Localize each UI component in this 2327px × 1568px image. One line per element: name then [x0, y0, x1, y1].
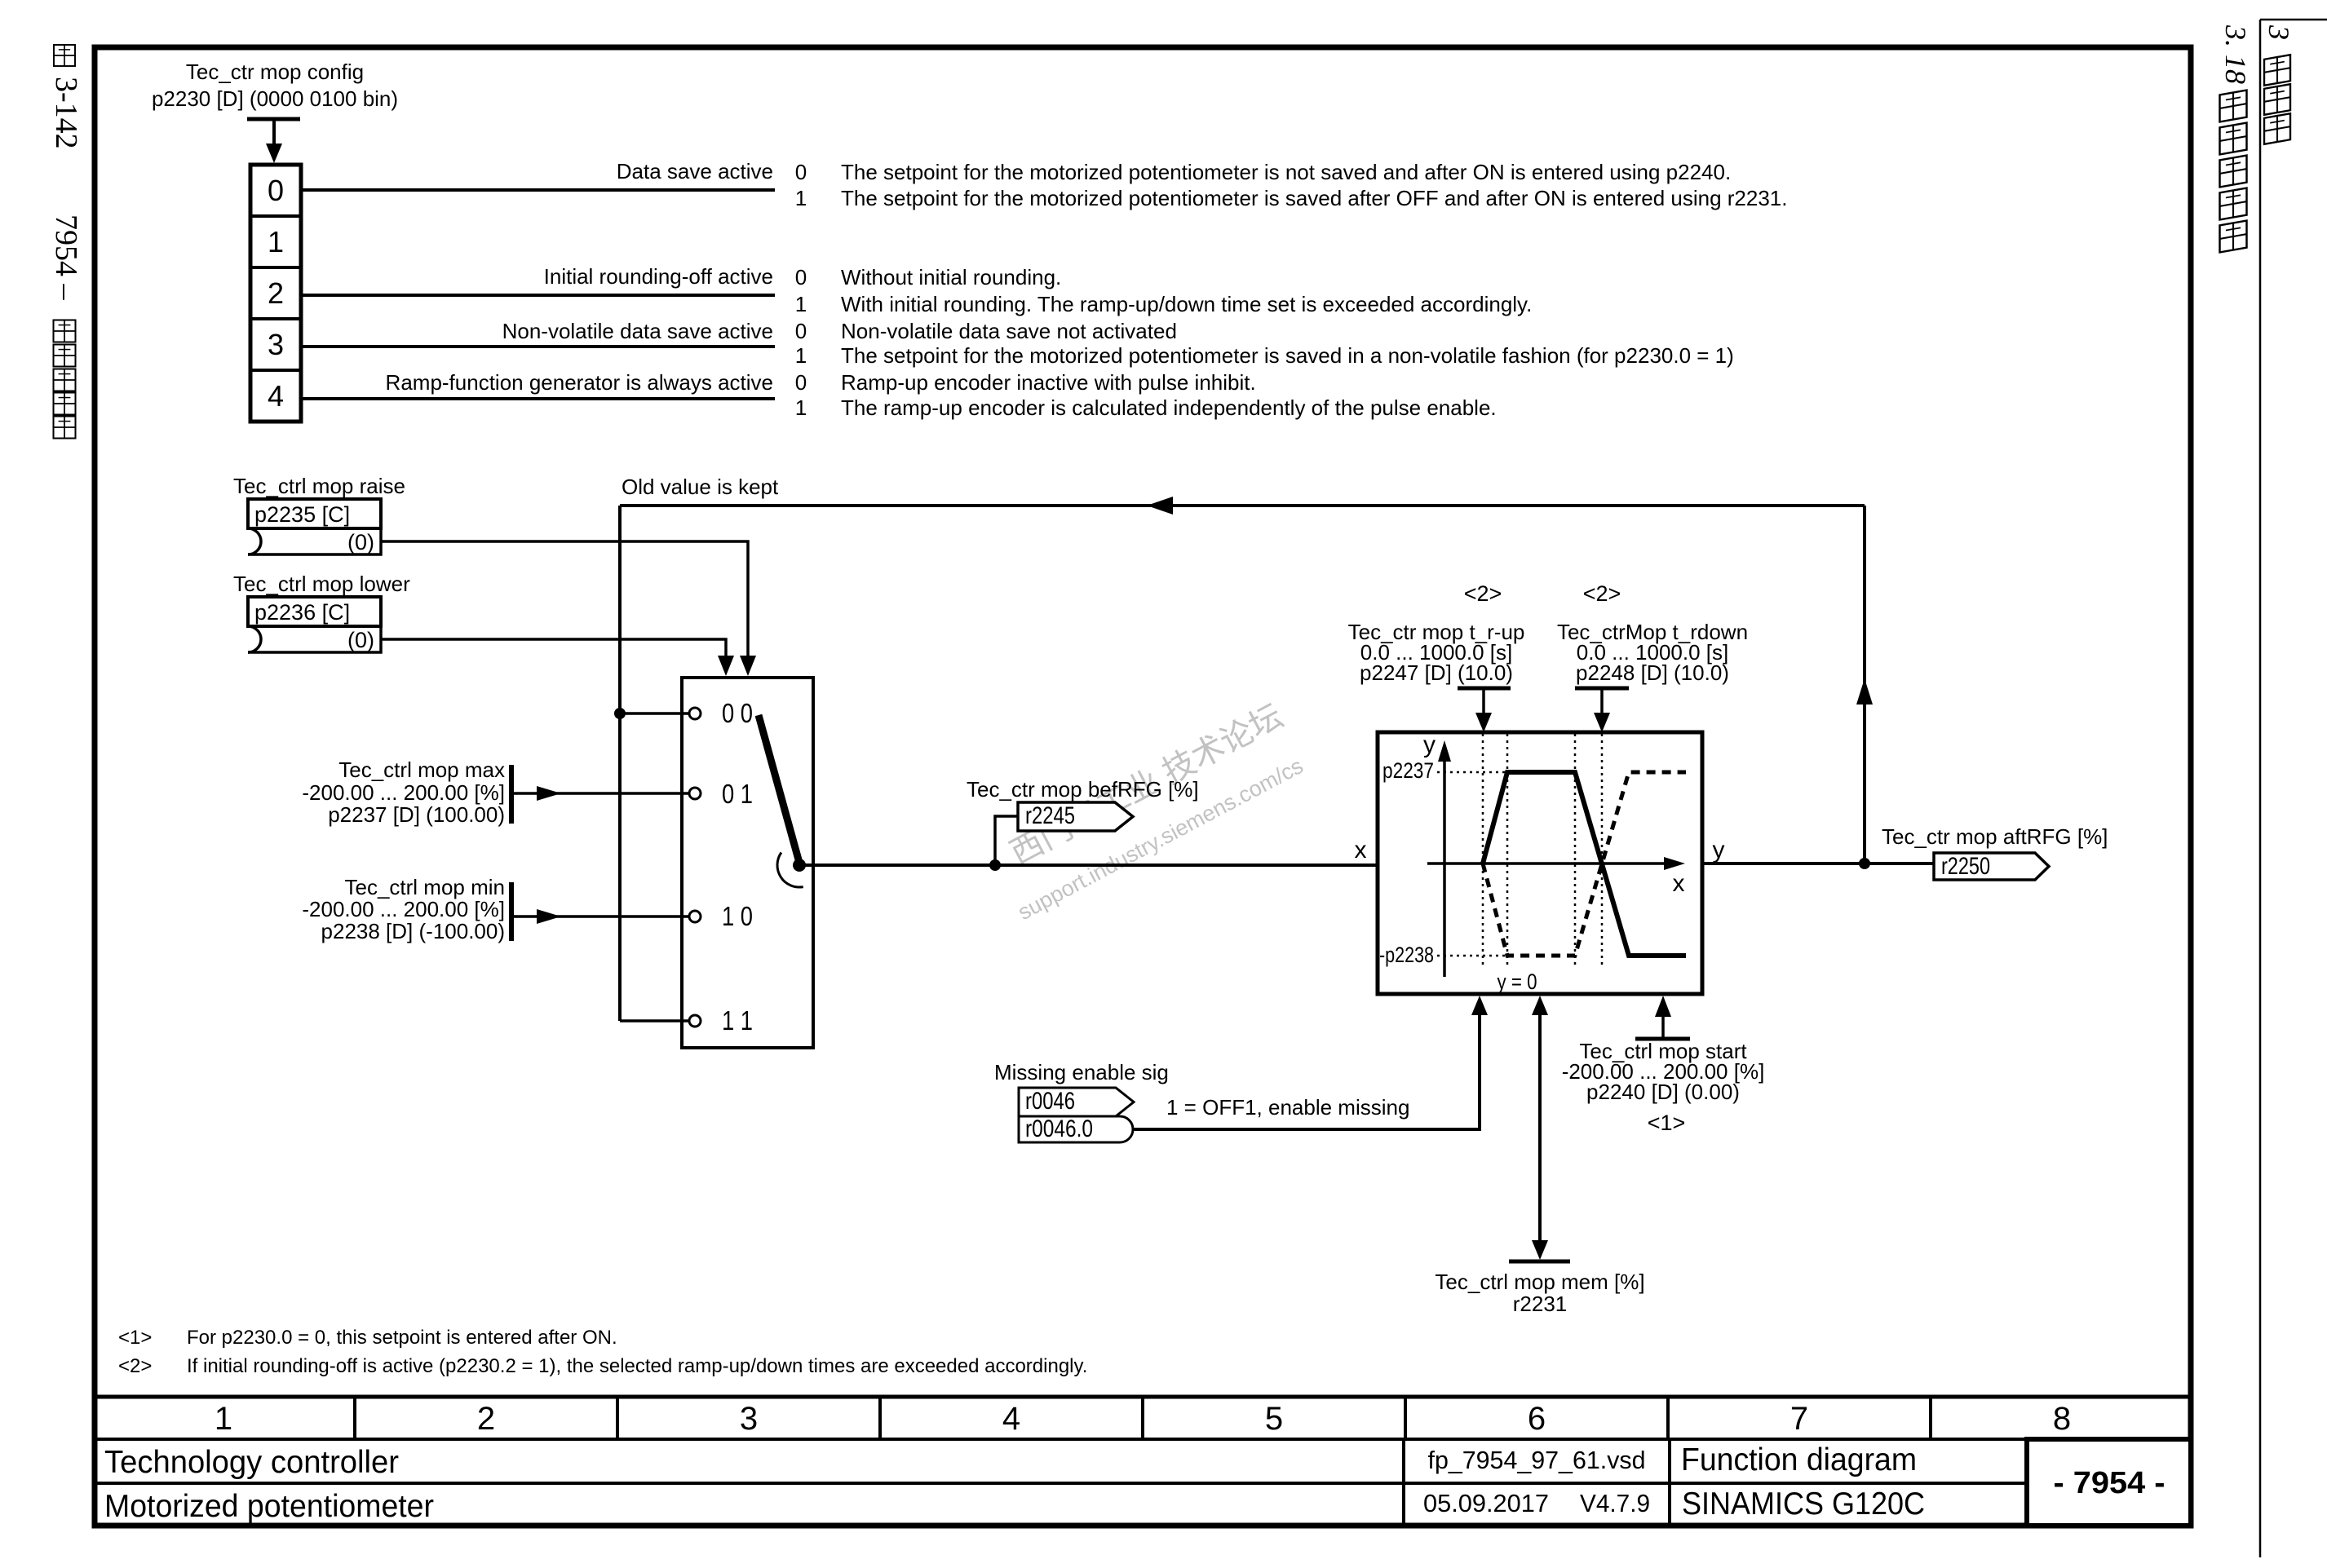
switch rotation arc	[777, 853, 803, 888]
wire p2238 to contact 10	[511, 915, 688, 918]
svg-text:p2238 [D] (-100.00): p2238 [D] (-100.00)	[321, 919, 505, 943]
wire p2247 into RFG	[1482, 688, 1485, 714]
svg-text:r2245: r2245	[1025, 802, 1075, 829]
svg-text:p2237 [D] (100.00): p2237 [D] (100.00)	[328, 802, 505, 827]
svg-text:Ramp-up encoder inactive with: Ramp-up encoder inactive with pulse inhi…	[841, 370, 1256, 395]
svg-text:1 1: 1 1	[722, 1005, 753, 1036]
svg-text:3. 18: 3. 18	[2219, 24, 2252, 84]
svg-text:r2231: r2231	[1513, 1292, 1568, 1316]
svg-text:Tec_ctrl mop mem [%]: Tec_ctrl mop mem [%]	[1435, 1270, 1644, 1294]
p2230 parameter T-bar	[247, 117, 300, 121]
svg-text:Tec_ctrl mop min: Tec_ctrl mop min	[345, 875, 506, 899]
wire p2236 to switch	[381, 639, 726, 657]
svg-text:3: 3	[740, 1401, 758, 1437]
wire switch select vertical	[618, 506, 622, 1021]
svg-text:Data save active: Data save active	[617, 159, 773, 183]
svg-text:3-142: 3-142	[49, 77, 83, 149]
svg-text:0: 0	[795, 319, 807, 343]
wire bit 4	[301, 397, 775, 400]
contact 01	[689, 788, 701, 799]
svg-text:If initial rounding-off is act: If initial rounding-off is active (p2230…	[187, 1355, 1087, 1377]
page number box 7954	[2027, 1439, 2191, 1526]
svg-text:<1>: <1>	[118, 1327, 152, 1349]
wire r0046.0 to RFG	[1133, 1014, 1480, 1129]
svg-text:For p2230.0 = 0, this setpoint: For p2230.0 = 0, this setpoint is entere…	[187, 1327, 617, 1349]
wire bit 3	[301, 345, 775, 348]
svg-text:y: y	[1713, 837, 1725, 864]
RFG ramp curve dashed	[1483, 772, 1686, 956]
svg-text:p2248 [D] (10.0): p2248 [D] (10.0)	[1576, 660, 1729, 685]
wire feedback right vertical	[1863, 506, 1866, 864]
wire to contact 00	[620, 712, 688, 715]
svg-text:Tec_ctrl mop raise: Tec_ctrl mop raise	[233, 474, 405, 498]
svg-text:0 1: 0 1	[722, 779, 753, 809]
svg-text:The setpoint for the motorized: The setpoint for the motorized potentiom…	[841, 160, 1731, 184]
svg-text:6: 6	[1528, 1401, 1546, 1437]
svg-text:- 7954 -: - 7954 -	[2054, 1466, 2166, 1500]
wire RFG output to r2250	[1702, 862, 1934, 865]
svg-text:1 0: 1 0	[722, 901, 753, 931]
svg-text:-p2238: -p2238	[1379, 943, 1434, 967]
svg-text:Initial rounding-off active: Initial rounding-off active	[544, 264, 773, 289]
svg-text:y: y	[1423, 731, 1436, 758]
svg-text:p2230 [D] (0000 0100 bin): p2230 [D] (0000 0100 bin)	[152, 86, 398, 111]
svg-text:p2235 [C]: p2235 [C]	[254, 502, 350, 527]
svg-text:Motorized potentiometer: Motorized potentiometer	[104, 1489, 434, 1524]
svg-text:<2>: <2>	[118, 1355, 152, 1377]
contact 10	[689, 911, 701, 922]
svg-text:1: 1	[795, 186, 807, 210]
RFG ramp curve solid	[1483, 772, 1686, 956]
svg-text:Tec_ctrl mop max: Tec_ctrl mop max	[338, 757, 505, 782]
svg-text:1: 1	[215, 1401, 232, 1437]
ramp-function generator box	[1378, 732, 1702, 994]
svg-text:r0046: r0046	[1025, 1088, 1075, 1115]
svg-text:fp_7954_97_61.vsd: fp_7954_97_61.vsd	[1428, 1446, 1646, 1474]
node junction at contact 00	[614, 708, 626, 719]
svg-text:<2>: <2>	[1583, 581, 1621, 606]
bit selector box p2230	[250, 165, 301, 422]
p2240 start parameter	[1635, 1037, 1690, 1041]
svg-text:Tec_ctr mop config: Tec_ctr mop config	[186, 60, 364, 84]
svg-text:4: 4	[268, 379, 284, 413]
wire r2231 memory double arrow	[1538, 1014, 1542, 1240]
switch lever	[759, 715, 799, 863]
svg-text:0 0: 0 0	[722, 698, 753, 728]
wire p2230 arrow into bit box	[272, 119, 276, 145]
right margin rule	[2259, 20, 2262, 1557]
switch pivot	[793, 859, 806, 872]
wire p2248 into RFG	[1600, 688, 1604, 714]
RFG dotted verticals	[1482, 734, 1484, 969]
svg-text:p2247 [D] (10.0): p2247 [D] (10.0)	[1360, 660, 1513, 685]
svg-text:y = 0: y = 0	[1498, 970, 1537, 994]
svg-text:1: 1	[795, 292, 807, 316]
svg-text:(0): (0)	[347, 530, 374, 554]
svg-text:Technology controller: Technology controller	[104, 1445, 399, 1480]
svg-text:The setpoint for the motorized: The setpoint for the motorized potentiom…	[841, 186, 1787, 210]
svg-text:-200.00 ... 200.00 [%]: -200.00 ... 200.00 [%]	[302, 780, 505, 805]
wire switch output	[799, 864, 1378, 867]
svg-text:7954 –: 7954 –	[49, 214, 83, 301]
svg-text:With initial rounding. The ram: With initial rounding. The ramp-up/down …	[841, 292, 1532, 316]
svg-text:SINAMICS G120C: SINAMICS G120C	[1682, 1486, 1925, 1522]
wire feedback top	[620, 504, 1865, 507]
svg-text:Tec_ctr mop aftRFG [%]: Tec_ctr mop aftRFG [%]	[1882, 824, 2108, 849]
svg-text:Function diagram: Function diagram	[1681, 1442, 1917, 1477]
svg-text:Old value is kept: Old value is kept	[622, 475, 779, 499]
svg-text:r2250: r2250	[1941, 853, 1990, 880]
wire r2245 branch	[995, 816, 1019, 865]
svg-text:2: 2	[268, 276, 284, 310]
svg-text:0: 0	[795, 265, 807, 289]
contact 11	[689, 1015, 701, 1027]
watermark forum text	[1005, 698, 1307, 925]
selector switch box	[682, 678, 813, 1048]
svg-text:0: 0	[795, 370, 807, 395]
svg-text:3: 3	[2263, 24, 2295, 40]
svg-text:Without initial rounding.: Without initial rounding.	[841, 265, 1061, 289]
svg-text:(0): (0)	[347, 628, 374, 652]
svg-text:Tec_ctr mop befRFG [%]: Tec_ctr mop befRFG [%]	[967, 777, 1199, 802]
svg-text:4: 4	[1002, 1401, 1020, 1437]
right margin top rule	[2260, 19, 2327, 21]
left margin caption 图 3-142	[54, 45, 75, 66]
svg-text:0: 0	[795, 160, 807, 184]
contact 00	[689, 708, 701, 719]
svg-text:Ramp-function generator is alw: Ramp-function generator is always active	[386, 370, 773, 395]
svg-text:Non-volatile data save not act: Non-volatile data save not activated	[841, 319, 1177, 343]
svg-text:x: x	[1673, 870, 1685, 897]
svg-text:05.09.2017: 05.09.2017	[1423, 1489, 1549, 1517]
svg-text:Tec_ctrl mop lower: Tec_ctrl mop lower	[233, 572, 410, 596]
feedback arrowhead left	[1147, 497, 1173, 515]
wire p2237 to contact 01	[511, 792, 688, 795]
svg-text:-200.00 ... 200.00 [%]: -200.00 ... 200.00 [%]	[302, 897, 505, 921]
svg-text:3: 3	[268, 328, 284, 361]
RFG y-axis	[1443, 758, 1446, 977]
wire to contact 11	[620, 1019, 688, 1023]
wire bit 2	[301, 294, 775, 297]
svg-text:r0046.0: r0046.0	[1025, 1115, 1093, 1142]
svg-text:1: 1	[268, 225, 284, 258]
svg-text:8: 8	[2053, 1401, 2071, 1437]
node junction r2245 branch	[989, 859, 1001, 871]
wire p2235 to switch	[381, 541, 748, 657]
svg-text:<2>: <2>	[1464, 581, 1502, 606]
svg-text:0: 0	[268, 174, 284, 207]
svg-text:The setpoint for the motorized: The setpoint for the motorized potentiom…	[841, 343, 1734, 368]
title block table	[95, 1395, 2191, 1399]
RFG x-axis	[1427, 862, 1666, 865]
svg-text:p2236 [C]: p2236 [C]	[254, 600, 350, 625]
wire bit 0	[301, 188, 775, 192]
svg-text:1: 1	[795, 343, 807, 368]
svg-text:p2240 [D] (0.00): p2240 [D] (0.00)	[1586, 1080, 1740, 1104]
svg-text:7: 7	[1790, 1401, 1808, 1437]
connector output r0046.0	[1019, 1116, 1133, 1142]
svg-text:x: x	[1355, 837, 1367, 864]
svg-text:<1>: <1>	[1648, 1111, 1686, 1135]
svg-text:p2237: p2237	[1382, 758, 1434, 783]
svg-text:The ramp-up encoder is calcula: The ramp-up encoder is calculated indepe…	[841, 395, 1497, 420]
svg-text:2: 2	[477, 1401, 495, 1437]
svg-text:Missing enable sig: Missing enable sig	[994, 1060, 1169, 1084]
node junction at r2250 line	[1859, 858, 1870, 869]
svg-text:Non-volatile data save active: Non-volatile data save active	[502, 319, 773, 343]
svg-text:1: 1	[795, 395, 807, 420]
svg-text:5: 5	[1265, 1401, 1283, 1437]
svg-text:V4.7.9: V4.7.9	[1580, 1489, 1650, 1517]
svg-text:1 = OFF1, enable missing: 1 = OFF1, enable missing	[1166, 1095, 1409, 1120]
